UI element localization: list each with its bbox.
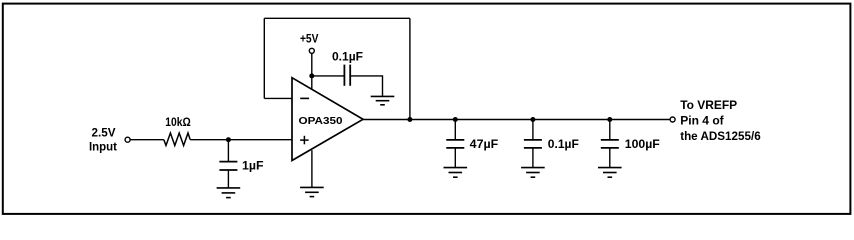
wire: 0.1µF node to 100µF node <box>533 119 610 121</box>
svg-text:0.1µF: 0.1µF <box>548 137 579 151</box>
input terminal <box>125 137 130 142</box>
ground (0.1µF output) <box>521 168 545 178</box>
junction: 100µF node <box>607 117 612 122</box>
wire: feedback horizontal to inverting input <box>264 97 292 99</box>
wire: supply node to bypass capacitor <box>312 75 345 77</box>
wire: 0.1µF to ground <box>532 148 534 168</box>
wire: 100µF to ground <box>609 148 611 168</box>
op-amp OPA350 <box>292 78 363 161</box>
capacitor 0.1µF (bypass) <box>344 65 350 86</box>
net label: To VREFP Pin 4 of the ADS1255/6 <box>680 98 761 143</box>
ground (under op-amp) <box>300 187 324 196</box>
junction: output node <box>407 117 412 122</box>
svg-text:Pin 4 of: Pin 4 of <box>680 114 724 128</box>
svg-text:OPA350: OPA350 <box>299 115 343 127</box>
junction: supply node <box>309 73 314 78</box>
wire: input to resistor <box>131 139 164 141</box>
wire: op-amp output to feedback node <box>363 119 410 121</box>
junction: +input node <box>226 137 231 142</box>
wire: node down to capacitor C 1µF <box>227 140 229 162</box>
svg-text:1µF: 1µF <box>242 158 264 172</box>
junction: 47µF node <box>453 117 458 122</box>
wire: 47µF node down <box>454 120 456 140</box>
wire: op-amp V- pin to ground <box>311 150 313 187</box>
ground (100µF) <box>598 168 622 178</box>
wire: resistor to +input node <box>190 139 228 141</box>
output terminal <box>670 117 675 122</box>
wire: +5V terminal down to supply node <box>311 54 313 76</box>
wire: 100µF node down <box>609 120 611 140</box>
svg-text:the ADS1255/6: the ADS1255/6 <box>680 129 761 143</box>
resistor 10kΩ <box>164 133 190 146</box>
ground (47µF) <box>444 168 468 178</box>
svg-text:To VREFP: To VREFP <box>680 98 737 112</box>
svg-text:10kΩ: 10kΩ <box>165 115 191 129</box>
svg-text:100µF: 100µF <box>625 137 660 151</box>
svg-text:47µF: 47µF <box>470 137 499 151</box>
wire: bypass capacitor to ground corner <box>350 76 382 97</box>
svg-text:2.5V: 2.5V <box>92 126 116 140</box>
wire: 47µF to ground <box>454 148 456 168</box>
wire: 0.1µF node down <box>532 120 534 140</box>
capacitor 0.1µF (output) <box>524 140 542 148</box>
wire: feedback top horizontal <box>264 17 410 19</box>
net label: 2.5V Input <box>89 126 117 154</box>
wire: 47µF node to 0.1µF node <box>455 119 533 121</box>
wire: feedback left vertical <box>263 18 265 98</box>
svg-text:0.1µF: 0.1µF <box>332 49 363 63</box>
capacitor 100µF <box>601 140 619 148</box>
capacitor 1µF <box>219 162 237 170</box>
svg-text:+5V: +5V <box>300 31 319 45</box>
wire: supply node to op-amp V+ pin <box>311 76 313 90</box>
svg-text:Input: Input <box>89 140 117 154</box>
ground (bypass) <box>371 96 395 104</box>
wire: feedback right vertical to output node <box>409 18 411 119</box>
wire: capacitor to ground <box>227 170 229 188</box>
wire: node to op-amp noninverting input <box>228 139 292 141</box>
ground (under 1µF) <box>217 188 241 198</box>
wire: output node to 47µF node <box>410 119 455 121</box>
junction: 0.1µF node <box>530 117 535 122</box>
power terminal +5V <box>309 48 314 53</box>
capacitor 47µF <box>446 140 464 148</box>
wire: 100µF node to output terminal <box>610 119 670 121</box>
